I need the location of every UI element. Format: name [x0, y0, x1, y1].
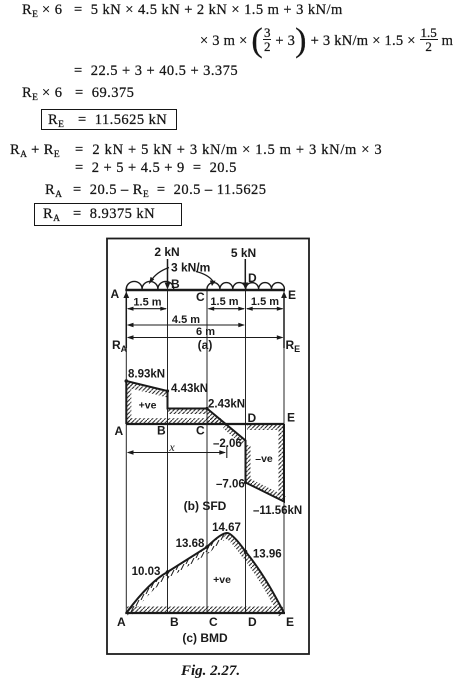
svg-text:1.5 m: 1.5 m	[251, 296, 279, 308]
SFD hatch under B-C	[168, 409, 208, 415]
dimension 6 m A-E	[127, 335, 284, 340]
reaction arrow RE	[281, 292, 287, 349]
SFD hatch left of E vertical	[279, 426, 285, 496]
svg-text:B: B	[157, 424, 166, 438]
SFD curve	[126, 381, 284, 502]
svg-text:–ve: –ve	[255, 453, 273, 465]
SFD hatch left edge A	[126, 383, 131, 424]
svg-text:–7.06: –7.06	[216, 479, 245, 491]
equation line 8 RHS	[73, 182, 266, 198]
beam A-E	[125, 289, 285, 292]
dimension 1.5 m D-E	[246, 307, 284, 311]
caption Fig. 2.27.	[181, 663, 240, 680]
dimension 1.5 m C-D	[208, 307, 246, 311]
svg-text:RA: RA	[112, 338, 128, 354]
svg-text:C: C	[209, 615, 218, 629]
svg-text:+ve: +ve	[139, 400, 157, 412]
BMD baseline	[125, 612, 285, 614]
svg-text:–11.56kN: –11.56kN	[253, 505, 302, 517]
BMD hatch under A-B	[126, 572, 170, 618]
BMD hatch under B-C	[168, 547, 211, 577]
equation line 7	[75, 160, 237, 176]
equation line 1 LHS	[22, 2, 62, 18]
svg-text:B: B	[170, 615, 179, 629]
svg-text:3 kN/m: 3 kN/m	[171, 261, 210, 275]
svg-text:+ve: +ve	[213, 574, 231, 586]
svg-text:C: C	[196, 290, 205, 304]
SFD hatch under slope crossing-D	[223, 424, 246, 445]
svg-text:8.93kN: 8.93kN	[128, 369, 165, 381]
BMD hatch under D-E	[240, 552, 284, 617]
SFD hatch right of drop D	[246, 445, 251, 483]
svg-text:D: D	[248, 411, 257, 425]
equation line 4 RHS	[75, 85, 134, 101]
BMD hatch under peak-D	[223, 533, 246, 556]
UDL pointer arrow right	[196, 272, 216, 287]
svg-text:RE: RE	[286, 338, 301, 354]
svg-text:2.43kN: 2.43kN	[208, 399, 245, 411]
dimension x	[127, 447, 227, 459]
dimension 1.5 m A-B	[127, 307, 167, 311]
SFD hatch above slope D-E	[246, 478, 287, 502]
svg-text:6 m: 6 m	[196, 326, 215, 338]
svg-text:x: x	[168, 440, 175, 454]
svg-text:1.5 m: 1.5 m	[210, 296, 238, 308]
projection line E	[283, 291, 285, 613]
projection line B	[167, 291, 169, 613]
UDL pointer arrow left	[149, 268, 169, 285]
equation line 8 LHS	[45, 182, 62, 198]
boxed result RA	[34, 203, 182, 226]
svg-text:13.96: 13.96	[253, 549, 282, 561]
load arrow 2 kN	[165, 259, 171, 290]
svg-text:(b) SFD: (b) SFD	[184, 499, 227, 513]
equation line 3	[74, 63, 238, 79]
svg-text:E: E	[286, 615, 294, 629]
svg-text:A: A	[117, 615, 126, 629]
SFD hatch under slope A-B	[126, 381, 167, 398]
BMD hatch under C-peak	[207, 533, 230, 552]
svg-text:C: C	[196, 424, 205, 438]
boxed result RE	[41, 109, 177, 130]
equation line 6 LHS	[10, 142, 60, 158]
SFD hatch under baseline D-E	[247, 424, 284, 430]
svg-text:E: E	[287, 411, 295, 425]
svg-text:2 kN: 2 kN	[154, 245, 179, 259]
svg-text:E: E	[288, 288, 296, 302]
svg-text:4.43kN: 4.43kN	[171, 383, 208, 395]
load arrow 5 kN	[242, 259, 248, 290]
SFD hatch triangle C-crossing	[207, 409, 227, 425]
projection line A	[125, 291, 127, 613]
equation line 1 RHS	[74, 2, 343, 18]
projection line D	[245, 291, 247, 613]
UDL humps C-E	[207, 283, 284, 289]
BMD hatch above baseline	[127, 607, 283, 614]
svg-text:10.03: 10.03	[132, 566, 161, 578]
BMD curve	[126, 533, 284, 613]
svg-text:B: B	[171, 277, 180, 291]
UDL humps A-B	[126, 281, 173, 289]
equation line 6 RHS	[75, 142, 382, 158]
SFD vertex dots	[125, 379, 129, 383]
equation line 2	[200, 28, 453, 55]
svg-text:–2.06: –2.06	[213, 438, 242, 450]
equation line 4 LHS	[22, 85, 62, 101]
figure frame	[107, 239, 309, 655]
BMD vertex dots	[166, 570, 170, 574]
svg-text:(c) BMD: (c) BMD	[182, 631, 228, 645]
svg-text:14.67: 14.67	[212, 522, 241, 534]
dimension 4.5 m A-D	[127, 323, 245, 328]
projection line C	[206, 291, 208, 613]
svg-text:A: A	[115, 424, 124, 438]
svg-text:5 kN: 5 kN	[231, 246, 256, 260]
svg-text:1.5 m: 1.5 m	[133, 297, 161, 309]
SFD hatch above baseline A-C	[126, 418, 221, 424]
svg-text:A: A	[111, 287, 120, 301]
svg-text:D: D	[248, 271, 257, 285]
reaction arrow RA	[123, 292, 129, 349]
svg-text:(a): (a)	[198, 338, 213, 352]
SFD baseline	[126, 423, 284, 425]
svg-text:13.68: 13.68	[176, 538, 205, 550]
svg-text:4.5 m: 4.5 m	[172, 314, 200, 326]
svg-text:D: D	[248, 615, 257, 629]
